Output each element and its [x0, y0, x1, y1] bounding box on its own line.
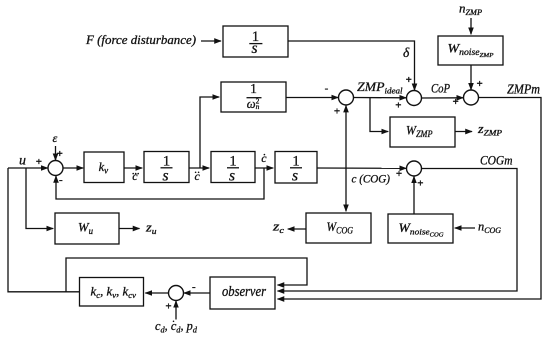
svg-text:1: 1: [250, 81, 257, 96]
summing junction COGm: [407, 161, 422, 176]
block W_u: [55, 213, 119, 244]
svg-text:+: +: [395, 99, 401, 111]
sign plus at ZMPideal bottom input: [334, 105, 340, 117]
summing junction observer error: [169, 286, 184, 301]
svg-text:-: -: [192, 281, 196, 293]
block 1/s force integrator: [223, 26, 288, 57]
node c tripledot label: [132, 169, 139, 183]
node n_COG label: [478, 220, 501, 236]
wire u branch into observer: [66, 258, 307, 292]
svg-text:observer: observer: [222, 284, 266, 300]
summing junction ZMPideal: [339, 90, 354, 105]
wire 1/omega2 to ZMPideal sum: [286, 97, 338, 99]
wire cddot branch to 1/omega2: [200, 97, 219, 168]
node F label: [85, 33, 196, 47]
svg-text:COGm: COGm: [480, 153, 513, 168]
wire W_noise_COG to COGm sum: [413, 176, 415, 214]
sign minus at observer sum right input: [192, 281, 196, 293]
node z_ZMP label: [477, 122, 502, 138]
wire W_u to z_u: [119, 228, 140, 230]
wire CoP to ZMPm sum: [421, 97, 463, 99]
sign plus at observer sum bottom input: [165, 301, 171, 313]
svg-text:Wu: Wu: [78, 220, 93, 237]
svg-text:kc, kv, kcv: kc, kv, kcv: [91, 285, 137, 301]
svg-text:CoP: CoP: [431, 81, 450, 96]
svg-text:-: -: [325, 82, 329, 94]
svg-text:+: +: [57, 148, 63, 160]
svg-text:nZMP: nZMP: [459, 2, 482, 18]
wire integrator2 to integrator3 with cdot label: [255, 167, 273, 169]
wire integrator3 to COGm sum with c COG label: [317, 167, 406, 169]
svg-text:WCOG: WCOG: [327, 219, 354, 236]
sign minus at u sum bottom input: [59, 174, 63, 186]
svg-text:+: +: [453, 96, 459, 108]
svg-text:+: +: [396, 168, 402, 180]
wire integrator1 to integrator2 with cddot label: [189, 167, 209, 169]
node CoP label: [431, 81, 450, 96]
block W_noise_COG: [388, 214, 453, 243]
svg-text:zc: zc: [272, 220, 285, 236]
node c dot label: [261, 151, 267, 165]
wire delta from integrator to CoP sum: [288, 41, 415, 90]
svg-text:+: +: [165, 301, 171, 313]
wire COGm feedback to observer: [278, 169, 518, 292]
sign plus at ZMPm left input: [453, 96, 459, 108]
block integrator1 1/s: [144, 152, 189, 183]
svg-text:s: s: [251, 40, 257, 57]
svg-text:+: +: [477, 78, 483, 90]
wire ZMPm feedback to observer: [278, 98, 542, 300]
svg-text:c (COG): c (COG): [352, 174, 391, 186]
wire c branch down to W_COG: [345, 168, 347, 211]
svg-text:zZMP: zZMP: [477, 122, 502, 138]
sign plus at CoP top input: [406, 74, 412, 86]
svg-text:ZMPideal: ZMPideal: [357, 79, 403, 96]
wire kv to integrator1 with c3dot label: [124, 167, 142, 169]
sign plus at COGm bottom input: [417, 178, 423, 190]
wire cdot feedback to u sum: [56, 168, 264, 199]
wire n_ZMP to W_noise_ZMP: [470, 18, 472, 34]
sign plus at CoP left input: [395, 99, 401, 111]
svg-text:WZMP: WZMP: [406, 123, 433, 140]
svg-text:+: +: [406, 74, 412, 86]
svg-text:+: +: [36, 156, 42, 168]
node ZMPm label: [507, 82, 540, 97]
block W_noise_ZMP: [438, 36, 503, 65]
wire u sum to kv: [63, 167, 83, 169]
svg-text:c: c: [132, 169, 138, 183]
node z_u label: [145, 221, 157, 237]
summing junction ZMPm: [464, 90, 479, 105]
svg-text:δ: δ: [403, 45, 410, 60]
sign plus at ZMPm top input: [477, 78, 483, 90]
svg-text:u: u: [19, 154, 26, 169]
svg-text:ω: ω: [247, 97, 256, 111]
wire c feedback up into ZMPideal sum: [345, 106, 347, 168]
svg-text:WnoiseCOG: WnoiseCOG: [399, 221, 445, 239]
summing junction CoP: [407, 91, 422, 106]
svg-text:cd, cd, pd: cd, cd, pd: [155, 319, 198, 335]
svg-text:s: s: [229, 168, 235, 185]
node z_c label: [272, 220, 285, 236]
svg-text:ZMPm: ZMPm: [507, 82, 540, 97]
node c doubledot label: [195, 169, 201, 183]
node epsilon label: [53, 131, 58, 145]
wire cd reference into observer sum: [175, 301, 177, 320]
block integrator2 1/s: [211, 152, 255, 183]
wire F to integrator: [201, 40, 221, 42]
node n_ZMP label: [459, 2, 482, 18]
wire kc output to u: [8, 168, 80, 292]
block W_COG: [306, 213, 371, 243]
sign plus at u sum top input: [57, 148, 63, 160]
wire W_ZMP to z_ZMP: [455, 131, 472, 133]
sign minus at ZMPideal left input: [325, 82, 329, 94]
wire sum to kc box: [145, 292, 168, 294]
wire n_COG to W_noise_COG: [455, 227, 475, 229]
svg-text:ε: ε: [53, 131, 58, 145]
wire u branch to W_u: [26, 168, 53, 229]
svg-text:-: -: [59, 174, 63, 186]
svg-text:c: c: [195, 169, 201, 183]
svg-text:s: s: [162, 168, 168, 185]
wire epsilon into u sum: [55, 146, 57, 160]
node ZMPideal label: [357, 79, 403, 96]
wire W_COG to z_c: [288, 228, 306, 230]
block kc kv kcv: [80, 278, 144, 307]
block W_ZMP: [390, 117, 455, 147]
block kv: [84, 152, 124, 183]
svg-text:+: +: [334, 105, 340, 117]
svg-text:+: +: [417, 178, 423, 190]
node c COG label: [352, 174, 391, 186]
summing junction u: [48, 161, 63, 176]
svg-text:WnoiseZMP: WnoiseZMP: [448, 41, 494, 60]
svg-text:F (force disturbance): F (force disturbance): [85, 33, 196, 47]
wire observer to sum: [184, 292, 210, 294]
sign plus at u sum left input: [36, 156, 42, 168]
sign plus at COGm left input: [396, 168, 402, 180]
node cd cddot pd label: [155, 319, 198, 335]
wire ZMPideal branch to W_ZMP: [370, 98, 388, 132]
svg-text:c: c: [261, 151, 267, 165]
node delta label: [403, 45, 410, 60]
svg-text:zu: zu: [145, 221, 157, 237]
node COGm label: [480, 153, 513, 168]
wire W_noise_ZMP to ZMPm sum: [470, 65, 472, 90]
block integrator3 1/s: [275, 152, 317, 184]
block observer: [210, 277, 275, 309]
svg-text:2: 2: [256, 96, 260, 105]
wire ZMPideal sum to CoP sum: [353, 97, 406, 99]
node u label: [19, 154, 26, 169]
svg-text:nCOG: nCOG: [478, 220, 501, 236]
svg-text:kv: kv: [99, 160, 109, 176]
block 1/omega_n^2: [221, 82, 286, 112]
svg-text:s: s: [292, 168, 298, 185]
wire u into u sum: [8, 167, 48, 169]
